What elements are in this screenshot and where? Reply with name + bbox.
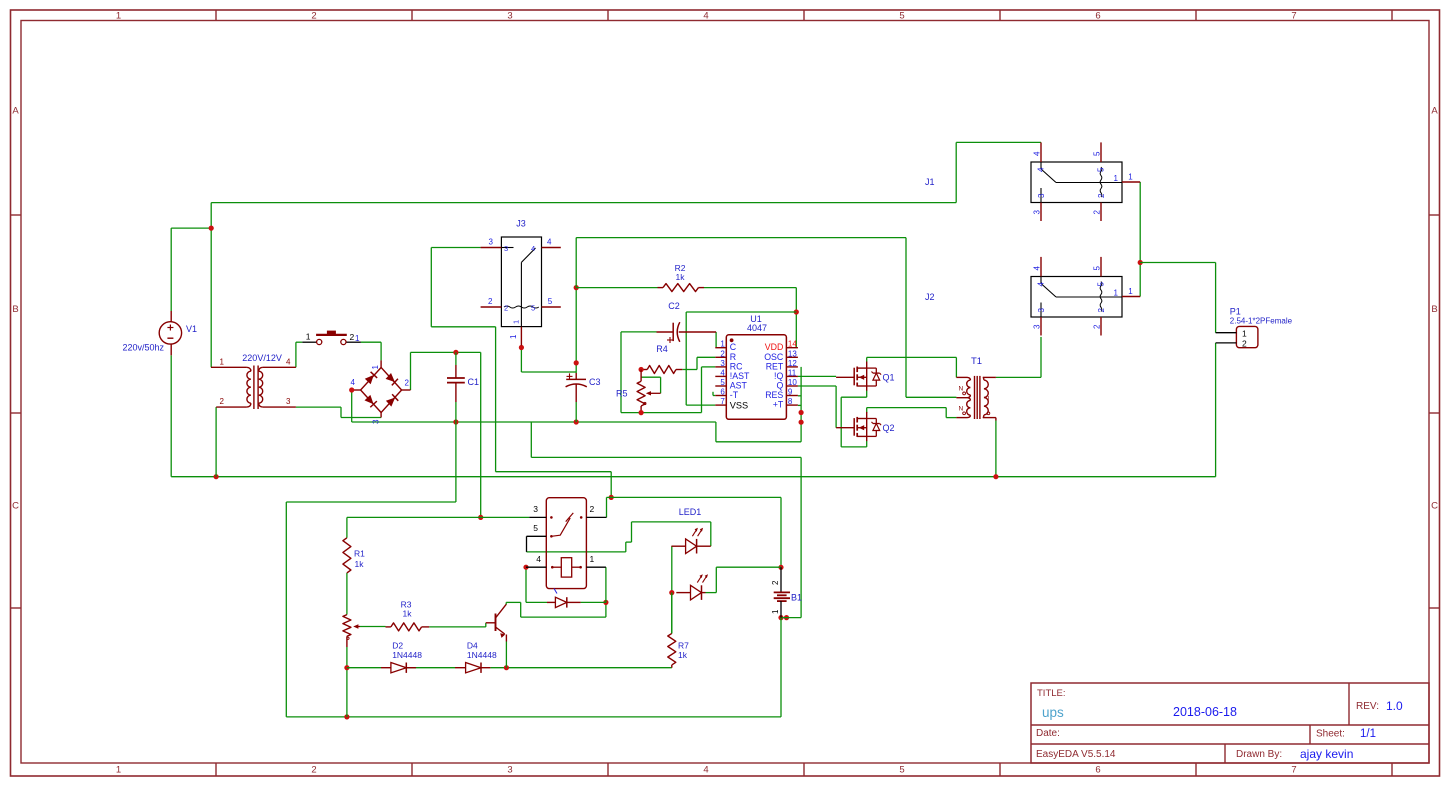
svg-text:7: 7 [1291,765,1296,776]
svg-text:Date:: Date: [1036,728,1060,739]
wire bottom rail [286,716,781,718]
wire V1 bottom to ground rail [170,355,172,476]
svg-text:14: 14 [788,340,797,349]
U1 pin 13 [786,356,798,358]
svg-text:4: 4 [703,11,708,22]
wire C2 right to pin1 [715,332,717,348]
wire bridge bottom to transformer pin3 [340,407,342,417]
wire C3 bottom stub [575,402,577,422]
wire Q1 source loop to Q2 source [866,391,868,398]
voltage source V1 [159,322,181,344]
svg-text:1k: 1k [678,650,688,660]
wire V1 top to node [170,228,172,311]
junction relay coil return [603,600,608,605]
svg-text:1: 1 [1128,173,1133,182]
svg-text:1k: 1k [676,272,686,282]
C2 plus sign [667,339,673,341]
resistor R7 [668,633,676,665]
wire charge path down to relay common [480,352,482,517]
svg-text:1N4448: 1N4448 [392,650,422,660]
svg-text:6: 6 [1095,765,1100,776]
svg-text:3: 3 [1033,210,1042,215]
svg-text:5: 5 [531,304,535,313]
svg-text:P1: P1 [1230,307,1241,317]
wire C1 column to bottom-left loop [455,422,457,502]
svg-text:4: 4 [1033,151,1042,156]
svg-text:2: 2 [771,580,780,585]
svg-text:6: 6 [720,388,725,397]
LED diode [671,545,685,547]
svg-text:2: 2 [488,297,493,306]
svg-text:T1: T1 [971,356,982,367]
svg-text:7: 7 [1291,11,1296,22]
svg-text:ajay kevin: ajay kevin [1300,747,1353,761]
svg-text:1: 1 [590,554,595,564]
wire R4 R5 loop left [621,331,657,333]
svg-text:5: 5 [899,765,904,776]
U1 pin 3 [715,366,726,368]
wire bridge right to C1 top [410,352,412,390]
svg-text:-T: -T [730,390,739,400]
capacitor C2 electrolytic [672,323,674,341]
potentiometer R5 [637,381,645,406]
wire P1 pin2 to ground rail [1215,343,1217,477]
svg-text:1.0: 1.0 [1386,699,1403,713]
svg-text:3: 3 [1037,308,1046,313]
C3 plus sign [567,375,573,377]
svg-text:Q1: Q1 [883,373,895,383]
svg-text:10: 10 [788,378,797,387]
svg-text:4: 4 [547,238,552,247]
svg-text:2: 2 [1093,324,1102,329]
svg-text:Drawn By:: Drawn By: [1236,749,1282,760]
svg-text:R: R [730,352,736,362]
svg-text:4: 4 [703,765,708,776]
relay J1 [1031,162,1122,203]
junction C3 column mid [574,360,579,365]
U1 pin 5 [715,385,726,387]
wire transformer pin4 to push button [295,342,297,367]
svg-text:D2: D2 [392,641,403,651]
resistor R2 [663,284,699,292]
svg-text:B: B [12,304,18,315]
svg-text:3: 3 [372,419,381,424]
bridge pin stubs [352,389,361,391]
junction VDD column [794,309,799,314]
wire relay pin5 to LED1 staircase [527,551,626,553]
svg-text:5: 5 [1097,282,1106,287]
transistor Q1 MOSFET [853,368,855,386]
wire Q1 drain to T1 [866,357,868,361]
svg-text:5: 5 [1093,151,1102,156]
wire transistor emitter down [505,642,507,668]
svg-text:I: I [988,395,990,402]
svg-text:RES: RES [765,390,783,400]
svg-text:1k: 1k [403,609,413,619]
svg-text:B1: B1 [791,593,802,603]
resistor R1 [343,538,351,573]
svg-text:6: 6 [1095,11,1100,22]
U1 pin 14 [786,347,798,349]
junction T1 ground [993,474,998,479]
transformer TR 220V/12V [211,366,247,368]
svg-text:Q: Q [776,381,783,391]
svg-text:C2: C2 [668,301,680,311]
svg-text:B: B [1431,304,1437,315]
svg-text:8: 8 [788,397,793,406]
flyback diode [547,601,555,603]
junction dots on RET column [799,410,804,415]
svg-text:2: 2 [590,504,595,514]
wire to battery plus [607,496,782,498]
svg-text:VDD: VDD [765,342,784,352]
U1 pin 6 [715,395,726,397]
wire R1 column [346,517,348,537]
svg-text:1: 1 [116,765,121,776]
wire relay pin3 rail [347,516,529,518]
wire VDD top link [686,311,796,313]
wire C1 top stub [455,352,457,365]
svg-text:R7: R7 [678,641,689,651]
svg-text:V1: V1 [186,324,197,334]
svg-text:1N4448: 1N4448 [467,650,497,660]
junction transformer pin2 on ground rail [214,474,219,479]
transistor NPN [495,614,497,632]
U1 pin 12 [786,366,798,368]
wire C3 column [575,288,577,373]
svg-text:3: 3 [533,504,538,514]
svg-text:3: 3 [507,11,512,22]
title block [1031,683,1429,763]
battery B1 [780,567,782,592]
wire R4 to pin2 [682,369,697,371]
svg-text:3: 3 [507,765,512,776]
relay K1 coil [561,558,571,577]
wire transistor collector to relay coil [505,602,507,604]
svg-text:2: 2 [504,304,508,313]
wire C1 bottom stub [455,402,457,422]
wire R3 left to pot wiper [360,626,386,628]
svg-text:2: 2 [220,397,225,406]
svg-text:LED1: LED1 [679,507,702,517]
svg-text:1/1: 1/1 [1360,728,1376,740]
svg-text:220v/50hz: 220v/50hz [123,343,165,353]
svg-text:AST: AST [730,381,748,391]
wire relay pin4 to flyback diode [525,567,527,602]
svg-text:R5: R5 [616,389,628,399]
svg-text:1: 1 [771,609,780,614]
junction transistor emitter on rail [504,665,509,670]
wire center tap rail [576,237,906,239]
wire minus rail y=422 [352,421,716,423]
svg-text:1: 1 [720,340,725,349]
wire main top rail [210,203,212,368]
svg-text:J3: J3 [516,219,526,229]
svg-text:RET: RET [766,361,784,371]
junction R5 bottom [639,410,644,415]
relay J3 [501,237,541,327]
svg-text:EasyEDA V5.5.14: EasyEDA V5.5.14 [1036,749,1116,760]
svg-text:5: 5 [1093,266,1102,271]
svg-text:5: 5 [1097,167,1106,172]
relay K1 label mark [554,589,557,594]
svg-text:N: N [959,406,964,413]
wire flyback diode to relay pin1 [581,601,606,603]
U1 pin 2 [715,356,726,358]
svg-text:2: 2 [1097,308,1106,313]
wire minus rail to U1 RET [715,422,717,442]
capacitor C3 electrolytic [566,378,586,380]
junction C1 top [453,350,458,355]
svg-text:ups: ups [1042,705,1064,720]
svg-text:!Q: !Q [774,371,783,381]
svg-text:2: 2 [1097,193,1106,198]
wire pin9 pin8 to column [798,395,801,397]
potentiometer R6 lower [343,615,351,637]
capacitor C1 [447,377,465,379]
wire J3 pin3 route down [431,247,480,249]
junction relay pin4 [523,565,528,570]
wire LED2 cathode to battery [706,592,717,594]
svg-text:1: 1 [1114,174,1119,183]
svg-text:4: 4 [720,368,725,377]
wire Q2 drain to T1 lower [866,408,868,413]
U1 pin 4 [715,375,726,377]
svg-text:OSC: OSC [764,352,784,362]
junction node V1-transformer [209,226,214,231]
svg-text:R4: R4 [656,344,668,354]
svg-text:1: 1 [220,358,225,367]
svg-text:13: 13 [788,349,797,358]
transformer T1 [956,376,967,378]
junction C3 bottom [574,419,579,424]
svg-text:C1: C1 [468,377,480,387]
resistor R3 [391,623,422,631]
svg-text:2: 2 [405,379,410,388]
svg-text:4: 4 [1033,266,1042,271]
svg-text:C: C [12,501,19,512]
wire D2 D4 rail [347,667,381,669]
svg-text:1: 1 [116,11,121,22]
svg-text:C3: C3 [589,377,601,387]
svg-text:N: N [959,386,964,393]
svg-text:3: 3 [720,359,725,368]
svg-text:1: 1 [371,364,380,369]
svg-text:1: 1 [509,334,518,339]
relay K1 contacts [550,516,553,519]
svg-text:3: 3 [286,397,291,406]
svg-text:2: 2 [1242,339,1247,349]
IC U1 4047 [726,335,786,420]
svg-text:J1: J1 [925,177,935,187]
svg-text:220V/12V: 220V/12V [242,353,282,363]
svg-text:3: 3 [489,238,494,247]
junction battery plus [778,565,783,570]
svg-text:R1: R1 [354,549,365,559]
connector P1 [1236,326,1258,347]
wire J1 pin1 to P1 [1139,182,1141,297]
svg-text:VSS: VSS [730,401,748,411]
svg-text:2: 2 [311,765,316,776]
junction LED2 anode [669,590,674,595]
relay J3 coil [504,306,539,308]
wire J3 pin1 to C3 top [520,348,522,373]
svg-text:4: 4 [531,244,535,253]
U1 pin 1 [715,347,726,349]
U1 pin 9 [786,395,798,397]
junction J3 pin1 [519,345,524,350]
wire minus rail drop to battery column [530,422,532,457]
junction C1 bottom [453,419,458,424]
U1 pin 7 [715,404,726,406]
wire push button to bridge top [361,341,381,343]
svg-text:TITLE:: TITLE: [1037,688,1066,699]
svg-text:4: 4 [1037,167,1046,172]
wire pin10 to Q2 gate [798,385,836,387]
junction bridge minus [349,387,354,392]
svg-text:4: 4 [1037,282,1046,287]
wire R3 right to transistor base [429,626,486,628]
diode D4 1N4448 [455,667,466,669]
svg-text:C: C [730,342,737,352]
junction relay pin2 / battery top [609,495,614,500]
svg-text:1: 1 [1242,328,1247,338]
junction C3 column R2 [574,285,579,290]
svg-text:2018-06-18: 2018-06-18 [1173,705,1237,719]
relay K1 lower [546,498,586,589]
svg-text:RC: RC [730,361,743,371]
svg-text:A: A [1431,106,1438,117]
svg-text:7: 7 [720,397,725,406]
svg-text:REV:: REV: [1356,701,1379,712]
svg-text:4047: 4047 [747,323,767,333]
svg-text:1: 1 [1128,287,1133,296]
svg-text:Sheet:: Sheet: [1316,729,1345,740]
wire transformer pin2 down [215,407,217,477]
wire T1 secondary top to J2 pin3 [996,376,1041,378]
wire battery bottom links [778,615,783,620]
svg-text:5: 5 [720,378,725,387]
bridge rectifier B [361,368,382,391]
wire R5 wiper loop [660,377,662,393]
svg-text:2: 2 [350,332,355,342]
svg-text:4: 4 [536,554,541,564]
junction R1 column bottom rail [344,714,349,719]
wire stub at pin6 [712,392,714,396]
svg-text:11: 11 [788,368,797,377]
junction charge path on relay rail [478,515,483,520]
U1 pin 10 [786,385,798,387]
svg-text:1: 1 [1114,289,1119,298]
svg-text:2.54-1*2PFemale: 2.54-1*2PFemale [1230,317,1293,326]
wire R2 line [576,287,657,289]
svg-text:5: 5 [548,297,553,306]
svg-text:5: 5 [899,11,904,22]
svg-text:1: 1 [512,320,521,324]
wire pin11 to Q1 gate [798,375,836,377]
svg-text:J2: J2 [925,292,935,302]
svg-text:4: 4 [351,378,356,387]
push button S1 [302,341,316,343]
transistor Q2 MOSFET [853,418,855,436]
wire bridge minus down [351,390,353,422]
svg-text:3: 3 [1033,324,1042,329]
svg-text:3: 3 [1037,193,1046,198]
LED diode [676,592,690,594]
svg-text:9: 9 [788,388,793,397]
svg-text:+T: +T [773,400,784,410]
svg-text:D4: D4 [467,641,478,651]
svg-text:1k: 1k [355,559,365,569]
svg-text:2: 2 [311,11,316,22]
svg-text:12: 12 [788,359,797,368]
svg-text:1: 1 [306,332,311,342]
wire LED column [671,546,673,633]
junction J relay outputs [1138,260,1143,265]
svg-text:2: 2 [720,349,725,358]
svg-text:3: 3 [504,244,508,253]
junction pot bottom on diode rail [344,665,349,670]
relay J2 [1031,277,1122,318]
svg-text:Q2: Q2 [883,423,895,433]
svg-text:C: C [1431,501,1438,512]
svg-text:5: 5 [533,523,538,533]
wire T1 secondary bottom to ground [995,421,997,477]
diode D2 1N4448 [381,667,391,669]
junction R4 R5 [639,367,644,372]
svg-text:1: 1 [355,334,360,343]
relay J3 contact [501,247,513,249]
svg-text:!AST: !AST [730,371,750,381]
svg-text:4: 4 [286,358,291,367]
U1 pin 11 [786,375,798,377]
svg-text:2: 2 [1093,210,1102,215]
U1 pin 8 [786,404,798,406]
svg-text:A: A [12,106,19,117]
wire ground rail [171,476,1215,478]
resistor R4 [647,366,676,374]
